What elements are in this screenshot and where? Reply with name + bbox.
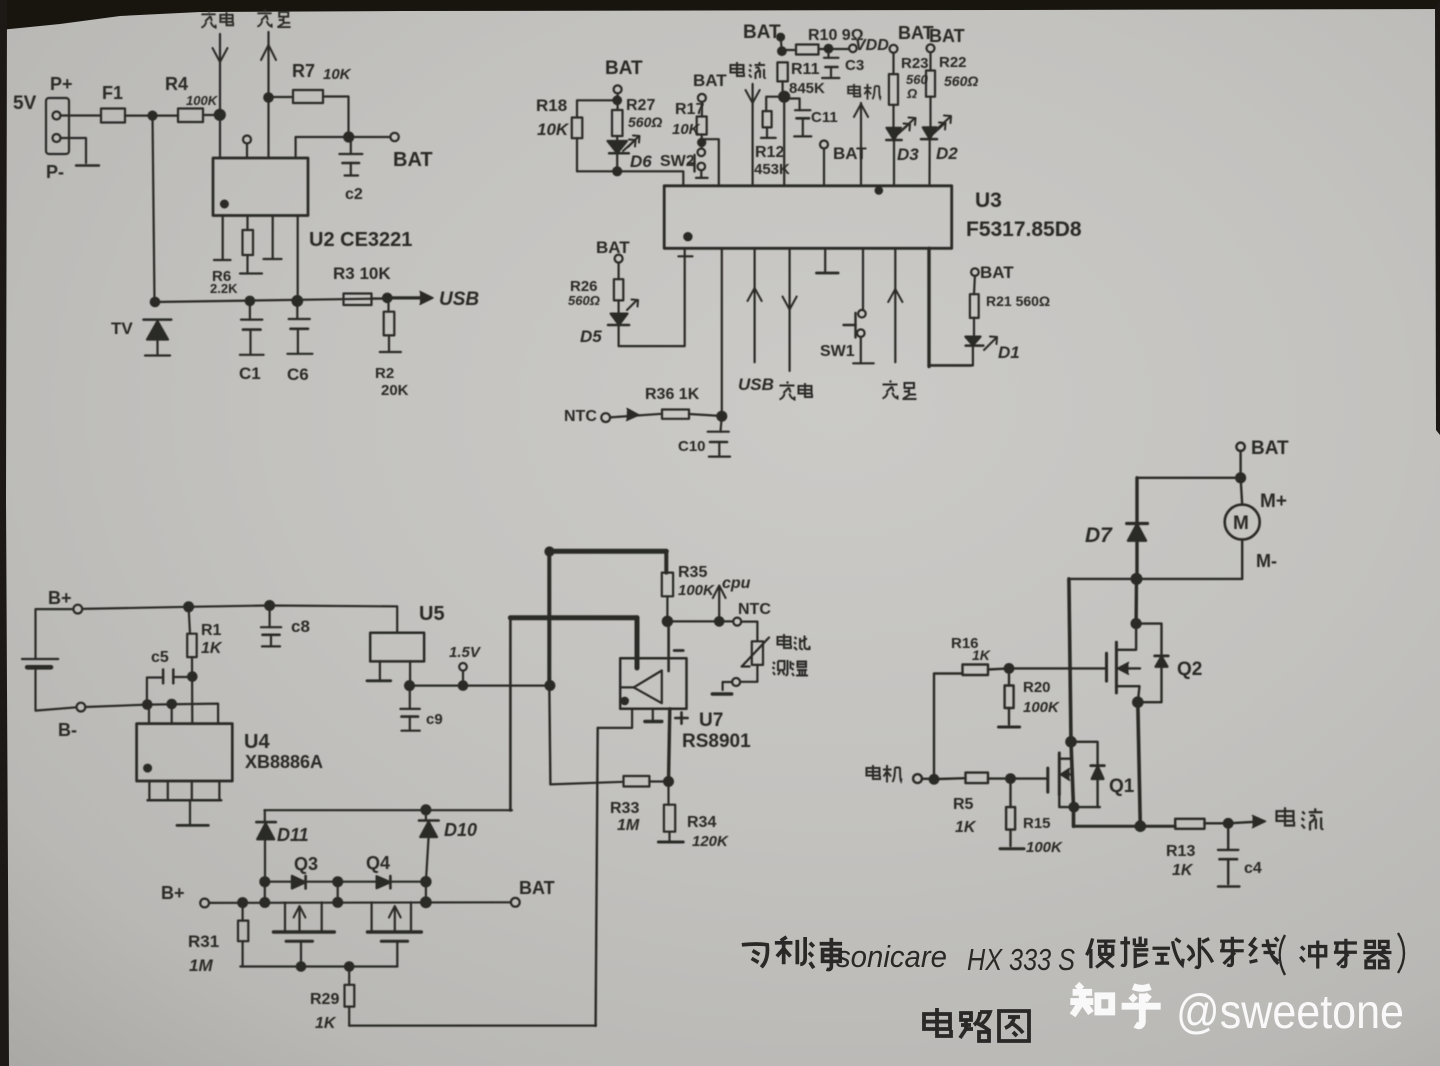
svg-text:C1: C1	[239, 364, 261, 383]
wire to R18	[577, 100, 617, 117]
LED D3	[887, 128, 902, 140]
label current cn top	[731, 62, 745, 76]
label battery temp cn	[778, 634, 792, 648]
wire gate bottom rail	[240, 965, 397, 967]
svg-text:R29: R29	[310, 991, 339, 1008]
wire 5V to F1	[61, 114, 102, 116]
svg-text:cpu: cpu	[722, 575, 751, 592]
wire BAT top rail to D7	[1137, 477, 1241, 479]
node C1	[246, 297, 254, 305]
terminal BAT (R17)	[698, 94, 706, 102]
svg-text:C10: C10	[678, 438, 706, 455]
wire full arrow up from U3	[894, 248, 896, 362]
wire D11/D10 top rail	[264, 809, 512, 811]
op-amp U7 RS8901	[620, 658, 686, 709]
resistor R6	[246, 216, 248, 231]
svg-text:R1: R1	[201, 622, 222, 639]
svg-text:120K: 120K	[692, 833, 729, 850]
terminal B+ lower	[200, 899, 209, 908]
svg-text:100K: 100K	[678, 582, 715, 599]
svg-text:R36 1K: R36 1K	[645, 386, 700, 403]
transistor Q4 gate diode	[377, 876, 391, 888]
terminal BAT motor	[1236, 443, 1244, 451]
svg-text:R17: R17	[675, 101, 704, 118]
svg-text:RS8901: RS8901	[682, 731, 751, 752]
svg-text:D3: D3	[897, 145, 919, 164]
wire D6 bottom rail	[577, 171, 683, 186]
svg-text:SW1: SW1	[820, 343, 855, 360]
terminal BAT stub mid	[820, 141, 828, 149]
dark photo border right	[1435, 0, 1440, 435]
svg-text:D6: D6	[630, 152, 652, 171]
wire R4 to node	[203, 114, 215, 116]
title handwritten: Philips sonicare HX333S portable water flosser	[742, 933, 1404, 1041]
svg-text:M: M	[1233, 513, 1249, 534]
svg-text:453K: 453K	[754, 161, 790, 178]
transistor Q2	[1116, 624, 1136, 650]
svg-text:1K: 1K	[201, 640, 223, 657]
svg-text:Q2: Q2	[1177, 659, 1202, 680]
svg-text:10K: 10K	[672, 121, 701, 138]
wire M- rail	[1069, 578, 1242, 580]
label charging	[201, 10, 215, 27]
svg-text:R5: R5	[953, 796, 974, 813]
svg-text:BAT: BAT	[605, 58, 643, 79]
capacitor C1	[249, 301, 251, 320]
svg-text:D2: D2	[936, 144, 958, 163]
U2 pin3 stub NC	[272, 216, 274, 260]
svg-text:R15: R15	[1023, 815, 1051, 832]
capacitor C2	[350, 141, 352, 154]
resistor R22	[926, 71, 935, 97]
svg-text:R12: R12	[755, 144, 784, 161]
motor M	[1241, 478, 1243, 505]
svg-text:20K: 20K	[381, 382, 409, 399]
wire U7 pin to long vertical	[598, 709, 632, 728]
svg-text:R34: R34	[687, 814, 716, 831]
transistor Q1	[1066, 737, 1075, 746]
fuse F1	[101, 109, 125, 123]
resistor R10	[796, 45, 819, 55]
svg-text:R21 560Ω: R21 560Ω	[986, 293, 1050, 309]
label motor cn left	[867, 765, 881, 779]
terminal motor-drive input	[913, 774, 922, 783]
svg-text:Ω: Ω	[906, 86, 917, 101]
svg-text:560Ω: 560Ω	[628, 114, 662, 130]
wire NTC to R36	[610, 414, 662, 418]
svg-text:560: 560	[906, 72, 928, 87]
wire Q2 source down	[1138, 702, 1141, 826]
label full	[257, 9, 271, 26]
connector P+/P- 5V input	[46, 98, 69, 154]
resistor R33	[624, 776, 650, 787]
wire motor arrow up	[860, 103, 862, 186]
IC U4 XB8886A	[137, 724, 233, 781]
wire source bottom rail	[1074, 825, 1176, 828]
wire gate rail drops	[264, 882, 266, 903]
terminal BAT (R23)	[890, 45, 898, 53]
svg-text:XB8886A: XB8886A	[245, 752, 323, 772]
wire USB arrow out	[387, 296, 427, 299]
transistor Q4	[371, 902, 373, 931]
capacitor C10	[721, 416, 722, 432]
svg-text:R27: R27	[626, 97, 655, 114]
resistor R31	[242, 903, 244, 921]
wire D5 to U3 pin	[619, 248, 685, 346]
resistor R18	[572, 118, 583, 139]
resistor R7	[293, 90, 323, 103]
pin stub with circle above U2	[243, 136, 251, 144]
node charge input	[215, 110, 225, 120]
svg-text:D7: D7	[1085, 524, 1113, 547]
terminal VDD	[849, 45, 857, 53]
svg-text:845K: 845K	[789, 80, 825, 97]
zener TV	[144, 318, 172, 321]
switch SW1	[862, 248, 864, 309]
svg-text:R7: R7	[292, 61, 315, 81]
wire node to C11	[784, 99, 799, 111]
wire thick bus top (to R35)	[547, 549, 666, 554]
svg-text:U3: U3	[975, 189, 1002, 212]
svg-text:1K: 1K	[955, 819, 977, 836]
LED D5	[611, 314, 628, 325]
terminal B-	[77, 703, 86, 712]
svg-text:1.5V: 1.5V	[449, 644, 482, 661]
wire R7 to BAT node	[323, 97, 349, 138]
resistor R29	[348, 967, 350, 985]
watermark zhihu @sweetone	[1070, 984, 1160, 1025]
resistor R34	[667, 782, 669, 805]
terminal BAT	[390, 133, 398, 141]
svg-text:1K: 1K	[972, 647, 991, 663]
svg-text:c4: c4	[1244, 860, 1262, 877]
ground U5	[379, 661, 381, 679]
U4 bottom pins to common bar	[148, 781, 150, 800]
svg-text:B+: B+	[48, 588, 72, 608]
wire long vertical to R29 rail	[596, 728, 598, 1026]
wire left bus corner to R33	[550, 782, 623, 785]
svg-text:B-: B-	[58, 720, 77, 740]
node TV junction	[151, 298, 159, 306]
IC U5	[370, 633, 424, 662]
resistor R3	[344, 294, 372, 306]
wire U5 output	[409, 661, 411, 685]
wire gate rail Q3/Q4	[265, 881, 426, 883]
transistor Q3 gate diode	[292, 876, 306, 889]
svg-text:VDD: VDD	[855, 37, 889, 54]
resistor R4	[178, 109, 203, 123]
wire charging arrow down into node	[219, 34, 221, 158]
wire Q1 drain vertical thick	[1069, 579, 1074, 826]
svg-text:BAT: BAT	[743, 22, 781, 43]
svg-text:R3 10K: R3 10K	[333, 264, 391, 283]
svg-text:R35: R35	[678, 564, 707, 581]
capacitor C5	[147, 678, 163, 705]
wire charge arrow down	[788, 248, 790, 371]
svg-text:BAT: BAT	[980, 263, 1014, 282]
label charge cn bottom	[780, 382, 795, 400]
svg-text:P+: P+	[50, 74, 73, 94]
terminal BAT (R26/D5)	[615, 255, 623, 263]
svg-text:SW2: SW2	[660, 153, 695, 170]
svg-text:BAT: BAT	[833, 144, 867, 163]
U4 top pin stubs	[148, 705, 150, 724]
capacitor C3	[827, 49, 829, 58]
resistor R23	[889, 74, 898, 105]
U2 pin1 stub NC	[222, 216, 224, 261]
body diode Q2	[1136, 624, 1161, 656]
svg-text:M+: M+	[1260, 491, 1287, 512]
svg-text:M-: M-	[1256, 551, 1277, 571]
svg-text:NTC: NTC	[738, 601, 771, 618]
wire P- lead	[61, 138, 87, 163]
svg-text:D5: D5	[580, 327, 602, 346]
LED D2	[923, 127, 937, 139]
svg-text:R13: R13	[1166, 843, 1195, 860]
svg-text:560Ω: 560Ω	[944, 73, 978, 89]
resistor R21	[970, 294, 979, 318]
wire U3 to D1 rail	[927, 248, 930, 366]
dark photo border top	[0, 0, 1440, 30]
wire vertical from F1 node down	[153, 116, 155, 302]
wire source rail B+ to BAT	[209, 901, 511, 904]
ground U4	[189, 800, 191, 825]
node R7 left junction	[264, 93, 272, 101]
resistor R1	[189, 607, 190, 634]
node BAT top	[344, 133, 353, 142]
wire full arrow up	[267, 32, 269, 158]
LED D1	[965, 337, 980, 346]
resistor R17	[697, 117, 707, 135]
wire F1 to R4	[125, 114, 178, 116]
svg-text:100K: 100K	[186, 93, 219, 108]
svg-text:Q4: Q4	[366, 853, 390, 873]
battery cell	[36, 609, 74, 659]
svg-text:R22: R22	[939, 54, 967, 71]
wire R35 node into U7 minus input	[667, 621, 670, 671]
body diode Q1	[1071, 742, 1098, 766]
IC U3 F5317.85D8	[664, 186, 952, 249]
svg-text:BAT: BAT	[393, 149, 433, 171]
svg-text:D11: D11	[277, 825, 309, 845]
node R11 bottom	[779, 92, 789, 102]
node C8 top	[265, 601, 274, 610]
switch SW2	[698, 149, 706, 157]
ground stub U7	[652, 709, 654, 720]
svg-text:5V: 5V	[13, 93, 37, 114]
wire BAT node to U2 pin	[296, 137, 349, 158]
wire BAT to R10	[782, 49, 796, 51]
wire B+ rail to U5	[82, 606, 397, 633]
svg-text:U4: U4	[244, 731, 270, 753]
plus sign	[675, 712, 687, 723]
wire node down to U3	[783, 97, 785, 186]
wire U2 pin4 down to USB rail	[297, 216, 299, 302]
terminal BAT (R22)	[927, 44, 935, 52]
svg-text:1M: 1M	[617, 817, 640, 834]
terminal BAT (R11)	[777, 34, 784, 41]
label motor cn top	[848, 84, 860, 97]
wire thick vertical left	[547, 551, 551, 685]
wire USB arrow up from U3	[753, 248, 755, 362]
svg-text:R11: R11	[791, 61, 820, 78]
svg-text:c5: c5	[151, 649, 169, 666]
wire current-sense arrow down	[751, 84, 753, 186]
diode D7	[1127, 522, 1148, 525]
capacitor C9	[409, 686, 411, 709]
terminal BAT (R21/D1)	[971, 268, 979, 276]
node F1-R4 junction	[149, 112, 157, 120]
wire USB rail	[155, 299, 387, 303]
IC U2 CE3221	[213, 158, 308, 216]
svg-text:1K: 1K	[315, 1015, 337, 1032]
wire thick bus 2 (to U7 minus)	[510, 615, 637, 620]
svg-text:Q3: Q3	[294, 854, 318, 874]
wire R29 to long vertical	[349, 1024, 595, 1026]
svg-text:U5: U5	[419, 603, 445, 625]
svg-text:560Ω: 560Ω	[568, 293, 600, 308]
svg-text:10K: 10K	[537, 120, 570, 139]
wire cpu arrow	[718, 586, 720, 621]
svg-text:NTC: NTC	[564, 408, 597, 425]
svg-text:C6: C6	[287, 365, 309, 384]
wire BAT node to BAT terminal	[349, 136, 390, 138]
svg-text:D1: D1	[998, 343, 1020, 362]
terminal B+	[73, 605, 82, 614]
dark photo border left	[0, 0, 9, 1066]
svg-text:R20: R20	[1023, 679, 1051, 696]
wire node to R12	[766, 97, 784, 111]
resistor R5	[938, 777, 965, 780]
thermistor battery temp	[741, 622, 757, 642]
svg-text:@sweetone: @sweetone	[1176, 986, 1404, 1039]
capacitor C4	[1227, 823, 1229, 850]
svg-text:10K: 10K	[323, 66, 352, 83]
wire up to R16	[934, 674, 963, 780]
resistor R26	[614, 279, 623, 300]
svg-text:1K: 1K	[1172, 862, 1194, 879]
node R2	[383, 294, 391, 302]
node NTC	[717, 412, 726, 421]
ground pin U3	[824, 248, 826, 271]
svg-text:100K: 100K	[1023, 699, 1060, 716]
label full cn bottom	[883, 381, 898, 399]
label current cn right	[1277, 807, 1295, 825]
svg-text:c8: c8	[291, 617, 310, 636]
svg-text:BAT: BAT	[519, 878, 555, 898]
svg-text:Q1: Q1	[1109, 776, 1135, 797]
LED D6	[608, 141, 628, 153]
wire R17 to U3 pin	[703, 139, 719, 186]
wire current-out arrow	[1228, 822, 1261, 824]
terminal BAT lower	[511, 898, 520, 907]
svg-text:R33: R33	[610, 800, 639, 817]
terminal 1.5V	[459, 663, 467, 671]
wire B- to U4	[85, 704, 218, 724]
svg-text:R18: R18	[536, 96, 567, 115]
svg-text:BAT: BAT	[929, 26, 965, 46]
node C6 / U2 pin4	[293, 296, 303, 306]
resistor R35	[664, 551, 668, 572]
svg-text:USB: USB	[439, 289, 479, 310]
terminal NTC	[601, 413, 610, 422]
svg-text:1M: 1M	[189, 956, 213, 975]
svg-text:2.2K: 2.2K	[210, 281, 238, 296]
wire vertical to D11 rail	[509, 618, 512, 810]
capacitor C11	[795, 109, 810, 111]
wire U7 output down	[669, 709, 670, 782]
svg-text:R4: R4	[165, 74, 188, 94]
svg-text:BAT: BAT	[596, 238, 630, 257]
resistor R15	[1009, 779, 1011, 808]
resistor R2	[387, 298, 389, 312]
svg-text:C3: C3	[845, 57, 864, 74]
minus sign	[674, 649, 683, 652]
node R1 top	[184, 602, 193, 611]
svg-text:c9: c9	[426, 711, 443, 728]
svg-text:F5317.85D8: F5317.85D8	[966, 218, 1082, 241]
svg-text:R23: R23	[901, 55, 929, 72]
wire node to R7	[269, 96, 294, 98]
capacitor C6	[296, 301, 298, 319]
node R10-C3	[825, 45, 833, 53]
svg-text:F1: F1	[102, 83, 123, 103]
resistor R12	[763, 111, 772, 127]
wire R35 node to NTC terminal	[667, 620, 733, 622]
resistor R11	[777, 62, 787, 81]
terminal BAT (R18/R27 branch)	[614, 85, 622, 93]
node below BAT	[613, 97, 621, 105]
transistor Q3	[284, 903, 286, 931]
diode D11	[264, 810, 266, 822]
svg-text:C11: C11	[811, 109, 838, 126]
resistor R27	[612, 110, 623, 136]
svg-text:BAT: BAT	[693, 71, 727, 90]
resistor R16	[963, 665, 989, 676]
wire Q2 drain	[1134, 579, 1138, 624]
svg-text:D10: D10	[444, 820, 477, 840]
diode D10	[425, 810, 427, 820]
svg-text:R2: R2	[375, 365, 394, 382]
svg-text:TV: TV	[111, 319, 133, 338]
resistor R36	[662, 410, 689, 419]
svg-text:100K: 100K	[1026, 839, 1063, 856]
svg-text:U7: U7	[699, 710, 723, 731]
wire gate to Q2	[1009, 667, 1107, 669]
svg-text:c2: c2	[345, 186, 363, 203]
svg-text:P-: P-	[46, 162, 64, 182]
svg-text:B+: B+	[161, 883, 185, 903]
wire U3 pin to NTC node	[721, 248, 723, 416]
svg-text:U2 CE3221: U2 CE3221	[309, 229, 412, 251]
capacitor C8	[269, 606, 271, 628]
svg-text:HX 333 S: HX 333 S	[967, 942, 1075, 977]
svg-text:R31: R31	[188, 932, 219, 951]
svg-text:USB: USB	[738, 375, 774, 394]
svg-text:sonicare: sonicare	[836, 939, 947, 974]
svg-text:BAT: BAT	[1251, 438, 1289, 459]
resistor R13	[1175, 819, 1204, 829]
resistor R20	[1008, 668, 1010, 685]
